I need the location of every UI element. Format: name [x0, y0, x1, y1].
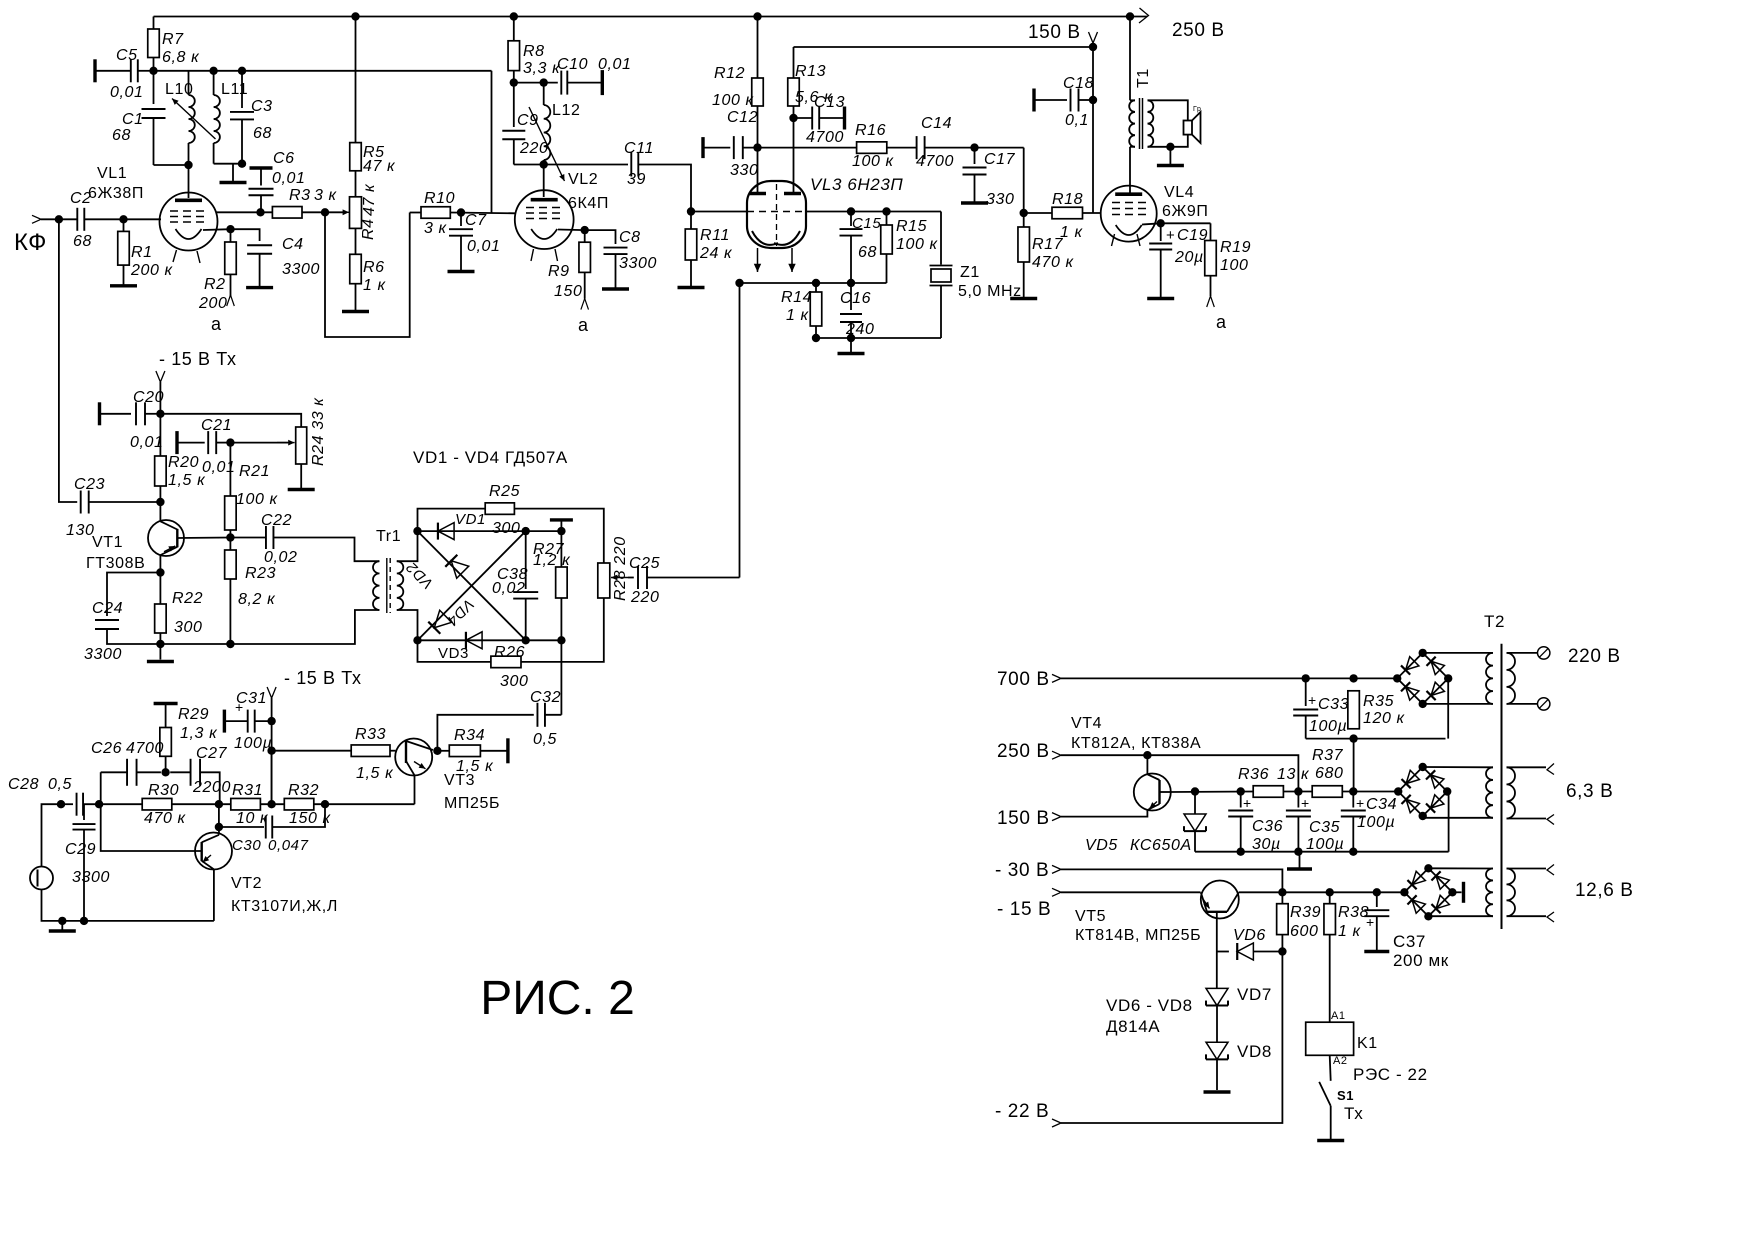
wire 220V terminal bottom — [1507, 703, 1539, 705]
svg-text:C3: C3 — [251, 98, 273, 115]
svg-text:Т1: Т1 — [1135, 68, 1152, 88]
capacitor C29 — [83, 804, 85, 820]
transformer T1 secondary — [1148, 100, 1154, 147]
svg-text:47 к: 47 к — [361, 183, 378, 216]
node VT2 base — [215, 823, 223, 831]
svg-text:220: 220 — [519, 140, 549, 157]
capacitor C26 — [126, 759, 128, 786]
wire top tank bus — [154, 70, 492, 72]
svg-text:VL4: VL4 — [1164, 184, 1194, 201]
svg-text:а: а — [578, 315, 589, 335]
chevron 12.6V bottom — [1547, 912, 1554, 922]
svg-text:6,3 В: 6,3 В — [1566, 781, 1613, 802]
svg-text:3,3 к: 3,3 к — [523, 60, 561, 77]
wire VT3 collector to C32 — [437, 715, 533, 751]
svg-text:300: 300 — [500, 673, 529, 690]
svg-text:1 к: 1 к — [1338, 923, 1362, 940]
node R29 bottom — [161, 768, 169, 776]
resistor R20 — [159, 414, 161, 456]
resistor R23 — [229, 538, 231, 551]
resistor R5 — [355, 17, 357, 143]
node R1 top — [119, 215, 127, 223]
svg-text:300: 300 — [174, 619, 203, 636]
cathode arrow left VL3 — [757, 248, 759, 272]
node speaker ground — [1166, 143, 1174, 151]
svg-text:- 15 В Тх: - 15 В Тх — [159, 349, 237, 369]
wire C2 to VL1 grid — [84, 218, 160, 220]
svg-text:220 В: 220 В — [1568, 646, 1621, 667]
wire C25 riser — [739, 283, 741, 578]
svg-text:КФ: КФ — [14, 229, 47, 256]
terminal R34 — [506, 738, 509, 763]
node R20 bottom C23 — [156, 498, 164, 506]
svg-text:3 к: 3 к — [424, 220, 448, 237]
svg-text:C1: C1 — [122, 111, 144, 128]
wire -15V to C31 node — [271, 698, 273, 804]
wire +250V top bus — [154, 16, 1148, 18]
zener VD5 — [1194, 792, 1196, 815]
svg-text:+: + — [1243, 795, 1252, 811]
node VT1 collector — [226, 533, 234, 541]
node cathode row C25 drop — [735, 279, 743, 287]
feedback left riser — [101, 772, 202, 851]
svg-text:VT1: VT1 — [92, 534, 123, 551]
svg-text:68: 68 — [858, 244, 877, 261]
terminal -22V — [1052, 1119, 1061, 1127]
capacitor C2 — [76, 208, 78, 231]
ground mic — [61, 921, 63, 930]
svg-text:C14: C14 — [921, 115, 952, 132]
svg-text:R26: R26 — [494, 644, 525, 661]
svg-text:S1: S1 — [1337, 1088, 1354, 1103]
node C36 bottom — [1237, 848, 1245, 856]
svg-text:68: 68 — [112, 127, 131, 144]
wire K1 to S1 — [1330, 1055, 1331, 1081]
resistor R6 — [350, 254, 362, 283]
svg-text:30µ: 30µ — [1252, 836, 1281, 853]
wire C12 to R16 — [743, 147, 857, 149]
svg-text:C30: C30 — [232, 837, 261, 854]
feedback row C26 C27 — [101, 771, 127, 773]
svg-text:- 15 В: - 15 В — [997, 899, 1051, 920]
svg-text:R15: R15 — [896, 218, 927, 235]
T2 winding 6.3V left — [1486, 767, 1493, 818]
svg-text:R37: R37 — [1312, 747, 1344, 764]
svg-text:250 В: 250 В — [997, 741, 1050, 762]
wire 12.6V bottom lead — [1507, 915, 1547, 917]
wire R3 to R4 node — [302, 211, 345, 213]
capacitor C33 — [1305, 678, 1307, 706]
wire C20 node to R24 — [145, 413, 160, 415]
potentiometer R28 — [598, 563, 610, 598]
svg-text:R36: R36 — [1238, 766, 1269, 783]
transistor VT3 — [395, 739, 432, 776]
svg-text:1,2 к: 1,2 к — [533, 552, 571, 569]
svg-text:3300: 3300 — [619, 255, 657, 272]
wire C31 riser bottom — [271, 751, 273, 805]
svg-text:R32: R32 — [288, 782, 319, 799]
node VT3 collector — [433, 747, 441, 755]
svg-text:0,5: 0,5 — [533, 731, 557, 748]
diode VD6 — [1217, 951, 1229, 953]
wiper arrow R24 — [277, 442, 295, 444]
svg-text:C23: C23 — [74, 476, 105, 493]
resistor R27 — [560, 531, 562, 567]
node C16 top — [847, 279, 855, 287]
node R14 top — [812, 279, 820, 287]
svg-text:R16: R16 — [855, 122, 886, 139]
svg-text:R4: R4 — [360, 218, 377, 240]
svg-text:13 к: 13 к — [1277, 766, 1310, 783]
capacitor C30 branch — [218, 804, 220, 827]
wire R8 node to C10 — [514, 82, 558, 84]
return row bridge1 — [1306, 738, 1446, 740]
heater pins VL2 — [531, 249, 534, 261]
svg-text:100 к: 100 к — [236, 491, 279, 508]
svg-text:C32: C32 — [530, 689, 561, 706]
node VL4 cathode — [1157, 219, 1165, 227]
svg-text:6Ж38П: 6Ж38П — [88, 185, 144, 202]
svg-text:3300: 3300 — [72, 869, 110, 886]
svg-text:VD6 - VD8: VD6 - VD8 — [1106, 996, 1193, 1015]
wire T1 sec bottom — [1148, 135, 1188, 147]
cathode row VL3 — [740, 282, 887, 284]
svg-text:200 к: 200 к — [130, 262, 174, 279]
svg-text:R1: R1 — [131, 244, 153, 261]
wire VT2 collector lead — [218, 827, 220, 835]
ground VD8 — [1216, 1060, 1218, 1091]
wire C31 to node — [255, 720, 272, 722]
cathode VL4 — [1116, 225, 1142, 235]
grid row VL3 right — [806, 211, 941, 213]
node input junction — [55, 215, 63, 223]
svg-text:VD5: VD5 — [1085, 837, 1118, 854]
wire 6.3V top lead — [1507, 766, 1547, 768]
svg-text:R14: R14 — [781, 289, 812, 306]
svg-text:100µ: 100µ — [1309, 718, 1347, 735]
svg-text:C4: C4 — [282, 236, 304, 253]
wire Tr1 sec bottom to bridge — [397, 610, 418, 640]
wire bridge bottom to R27 bottom — [526, 639, 562, 641]
terminal 700V — [1052, 674, 1061, 682]
wire VL3 left anode — [757, 148, 759, 194]
diode VD1 — [438, 523, 454, 540]
svg-text:L12: L12 — [552, 102, 581, 119]
node R15 top — [882, 207, 890, 215]
node C3 bottom — [238, 160, 246, 168]
svg-text:КС650А: КС650А — [1130, 837, 1192, 854]
resistor R33 — [351, 745, 390, 757]
terminal 150V rail — [1052, 813, 1061, 821]
svg-text:РЭС - 22: РЭС - 22 — [1353, 1065, 1428, 1084]
wire -15V rail — [1061, 891, 1201, 893]
wire 700V rail — [1061, 677, 1400, 679]
wire bridge1 top to winding — [1423, 652, 1493, 654]
wire bridge1 right to return — [1447, 678, 1449, 738]
terminal circle 220V top — [1538, 647, 1550, 659]
node C21 R21 — [226, 438, 234, 446]
core T1 — [1139, 98, 1141, 149]
resistor R9 — [584, 230, 586, 242]
svg-text:100µ: 100µ — [234, 735, 272, 752]
relay K1 — [1306, 1022, 1354, 1055]
svg-text:C13: C13 — [814, 94, 845, 111]
node C20 — [156, 410, 164, 418]
tube VL2 6К4П — [515, 190, 574, 249]
svg-text:Гр: Гр — [1193, 106, 1202, 113]
diagonal VD4 — [418, 531, 526, 640]
svg-text:220: 220 — [630, 589, 660, 606]
svg-text:R17: R17 — [1032, 236, 1064, 253]
ground C19 — [1147, 297, 1174, 300]
wire feedback R4 wiper to R10 — [325, 212, 410, 337]
svg-text:R25: R25 — [489, 483, 520, 500]
switch S1 — [1319, 1082, 1331, 1106]
capacitor C38 — [525, 531, 527, 589]
transistor VT1 — [148, 520, 184, 556]
wire 220V terminal top — [1507, 652, 1539, 654]
tube VL4 6Ж9П — [1101, 186, 1157, 242]
resistor R16 — [857, 142, 887, 154]
svg-text:+: + — [235, 699, 244, 715]
capacitor C18 — [1032, 89, 1035, 112]
wire C11 to VL3 grid — [638, 165, 691, 212]
ground C37 — [1364, 950, 1389, 953]
emitter row VT4 — [1171, 791, 1253, 794]
node top bus R5 — [351, 12, 359, 20]
terminal bridge3 — [1462, 882, 1465, 903]
resistor R11 — [690, 212, 692, 230]
svg-text:Тх: Тх — [1344, 1104, 1363, 1123]
node R31 R32 — [267, 800, 275, 808]
svg-text:- 30 В: - 30 В — [995, 860, 1049, 881]
capacitor C13 — [794, 117, 813, 119]
svg-text:0,01: 0,01 — [467, 238, 501, 255]
capacitor C19 — [1160, 223, 1162, 241]
node R14 bottom — [812, 334, 820, 342]
svg-text:R34: R34 — [454, 727, 485, 744]
svg-text:K1: K1 — [1357, 1035, 1378, 1052]
svg-text:100 к: 100 к — [896, 236, 939, 253]
svg-text:6К4П: 6К4П — [568, 195, 609, 212]
ground VT1 emitter — [159, 644, 161, 660]
svg-text:R23: R23 — [245, 565, 276, 582]
ground R11 — [678, 286, 705, 289]
node R7 bottom — [149, 67, 157, 75]
transformer Tr1 secondary — [397, 561, 404, 610]
node C7 top — [457, 208, 465, 216]
transistor VT4 — [1134, 774, 1171, 811]
svg-text:6Ж9П: 6Ж9П — [1162, 203, 1208, 220]
svg-text:68: 68 — [73, 233, 92, 250]
svg-text:C29: C29 — [65, 841, 96, 858]
svg-text:C37: C37 — [1393, 932, 1426, 951]
microphone — [30, 867, 53, 890]
svg-text:+: + — [1366, 914, 1375, 930]
wire -22V rail — [1061, 952, 1282, 1124]
svg-text:R10: R10 — [424, 190, 455, 207]
svg-text:L11: L11 — [221, 81, 248, 98]
terminal C10 — [601, 70, 604, 95]
bridge rectifier 220V (VD group 1) — [1397, 653, 1423, 679]
wire VT3 emitter — [414, 775, 416, 804]
node VL2 cathode — [581, 226, 589, 234]
resistor R17 — [1023, 213, 1025, 227]
svg-text:+: + — [1356, 795, 1365, 811]
ground C4 — [246, 286, 273, 289]
resistor R22 — [159, 573, 161, 605]
ground C7 — [448, 270, 475, 273]
wire -30V rail — [1061, 869, 1282, 892]
svg-text:4700: 4700 — [126, 740, 164, 757]
capacitor C24 — [107, 573, 160, 617]
cathode VL2 — [531, 229, 557, 239]
svg-text:R35: R35 — [1363, 693, 1394, 710]
terminal 250V — [1052, 751, 1061, 759]
svg-text:3300: 3300 — [84, 646, 122, 663]
wire 150V to VL4 screen — [1092, 47, 1094, 213]
node C18 — [1089, 96, 1097, 104]
node ground mic row — [58, 917, 66, 925]
node C29 bottom — [80, 917, 88, 925]
node C3 top — [238, 67, 246, 75]
svg-text:R28 220: R28 220 — [612, 536, 629, 601]
svg-text:1,3 к: 1,3 к — [180, 725, 218, 742]
svg-text:8,2 к: 8,2 к — [238, 591, 276, 608]
wire Tr1 sec top to bridge — [397, 531, 418, 561]
node R35 bottom — [1349, 734, 1357, 742]
wire R36 to C35 node — [1283, 791, 1312, 793]
svg-text:- 22 В: - 22 В — [995, 1101, 1049, 1122]
svg-text:КТ812А, КТ838А: КТ812А, КТ838А — [1071, 735, 1201, 752]
svg-text:300: 300 — [492, 520, 521, 537]
resistor R3 — [272, 207, 302, 219]
node C35 top — [1294, 787, 1302, 795]
terminal arrow 150V — [1089, 32, 1098, 43]
svg-text:47 к: 47 к — [363, 158, 396, 175]
terminal C13 — [843, 107, 846, 130]
wire mic bottom — [42, 890, 214, 921]
svg-text:200 мк: 200 мк — [1393, 951, 1449, 970]
capacitor C11 — [630, 153, 632, 177]
terminal -30V — [1052, 865, 1061, 873]
capacitor C20 — [98, 402, 101, 425]
wire 12.6V top lead — [1507, 868, 1547, 870]
terminal arrow C31 — [267, 687, 276, 698]
capacitor C15 — [850, 212, 852, 227]
resistor R13 — [793, 47, 795, 78]
resistor R8 — [513, 17, 515, 41]
ground speaker — [1169, 147, 1171, 164]
cathode arcs VL3 — [752, 231, 778, 245]
resistor R18 — [1024, 212, 1052, 214]
wire 6.3V bottom lead — [1507, 818, 1547, 820]
wire C14 down to R18 row — [1023, 148, 1025, 213]
wire bridge2 bottom to winding — [1423, 816, 1493, 818]
node R17 R18 — [1020, 209, 1028, 217]
svg-text:C22: C22 — [261, 512, 292, 529]
inductor L10 — [188, 71, 190, 95]
node top bus T1 — [1126, 12, 1134, 20]
wire C1-L10 bottom — [154, 164, 189, 166]
wire mic top — [42, 804, 62, 866]
svg-text:C35: C35 — [1309, 819, 1340, 836]
node VT1 emitter — [156, 568, 164, 576]
node C31 — [267, 717, 275, 725]
inductor L11 — [213, 71, 215, 95]
bridge top edge wire — [418, 530, 526, 532]
T2 winding 220V right — [1507, 653, 1516, 704]
svg-text:C25: C25 — [629, 555, 660, 572]
outer loop R25 — [418, 509, 486, 531]
svg-text:C7: C7 — [465, 212, 487, 229]
wire bridge2 right to ground row — [1447, 792, 1448, 852]
svg-text:ГТ308В: ГТ308В — [86, 555, 145, 572]
svg-text:20µ: 20µ — [1174, 249, 1204, 266]
wiper arrow R4 — [332, 211, 349, 213]
svg-text:C15: C15 — [852, 215, 881, 232]
node mic row — [57, 800, 65, 808]
wire VT2 emitter down — [213, 869, 215, 921]
resistor R39 — [1281, 892, 1283, 903]
svg-text:200: 200 — [198, 295, 228, 312]
svg-text:0,01: 0,01 — [272, 170, 306, 187]
svg-text:Т2: Т2 — [1484, 612, 1505, 631]
node C34 top — [1349, 787, 1357, 795]
wire C21 node to R24 wiper — [230, 442, 288, 444]
svg-text:0,1: 0,1 — [1065, 112, 1089, 129]
node R33 branch — [267, 747, 275, 755]
wire L10 to VL1 anode cap — [188, 165, 190, 198]
svg-text:1 к: 1 к — [786, 307, 810, 324]
wire 150V bus — [794, 46, 1094, 48]
svg-text:R31: R31 — [232, 782, 263, 799]
svg-text:12,6 В: 12,6 В — [1575, 880, 1634, 901]
svg-text:C24: C24 — [92, 600, 123, 617]
svg-text:VT5: VT5 — [1075, 908, 1106, 925]
node C15 top — [847, 207, 855, 215]
resistor R30 — [99, 803, 142, 805]
T2 winding 12.6V left — [1486, 869, 1493, 917]
svg-text:6,8 к: 6,8 к — [162, 49, 200, 66]
node VD5 top — [1191, 787, 1199, 795]
capacitor C37 — [1376, 892, 1378, 907]
node C17 top — [970, 143, 978, 151]
svg-text:0,5: 0,5 — [48, 776, 72, 793]
ground R1 — [110, 284, 137, 287]
svg-text:1,5 к: 1,5 к — [456, 758, 494, 775]
pin a mark R19 — [1207, 296, 1211, 307]
wire VL1 anode out — [217, 211, 273, 213]
node L10 bottom — [184, 161, 192, 169]
resistor R14 — [815, 283, 817, 292]
svg-text:C36: C36 — [1252, 818, 1283, 835]
transformer T1 primary — [1129, 17, 1131, 101]
resistor R29 — [154, 702, 178, 705]
svg-text:0,02: 0,02 — [492, 580, 526, 597]
resistor R15 — [886, 212, 888, 226]
node R39 top — [1278, 888, 1286, 896]
svg-text:VT2: VT2 — [231, 875, 262, 892]
node L12 bottom — [540, 160, 548, 168]
svg-text:VL1: VL1 — [97, 165, 127, 182]
tube VL3 6Н23П — [747, 181, 806, 248]
resistor R1 — [123, 219, 125, 231]
wire L11-C3 bottom — [214, 163, 242, 165]
svg-text:100 к: 100 к — [712, 92, 755, 109]
svg-text:C8: C8 — [619, 229, 641, 246]
svg-text:C26: C26 — [91, 740, 122, 757]
